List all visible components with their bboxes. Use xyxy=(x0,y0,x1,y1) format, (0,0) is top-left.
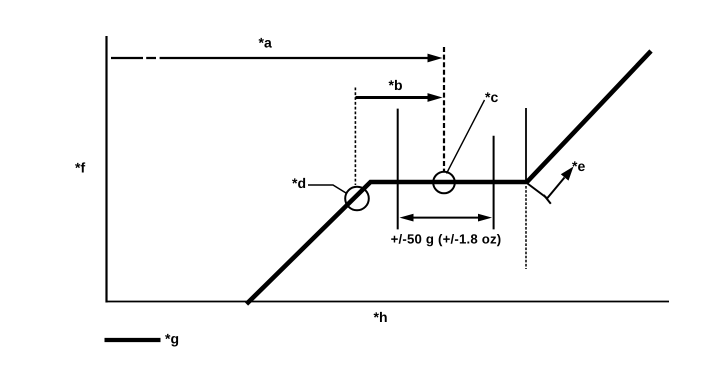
svg-text:+/-50 g (+/-1.8 oz): +/-50 g (+/-1.8 oz) xyxy=(391,231,502,246)
svg-text:*c: *c xyxy=(485,89,498,105)
svg-text:*b: *b xyxy=(389,77,403,93)
svg-text:*g: *g xyxy=(165,331,179,347)
svg-text:*e: *e xyxy=(572,158,585,174)
svg-text:*d: *d xyxy=(292,175,306,191)
svg-text:*h: *h xyxy=(374,309,388,325)
svg-text:*f: *f xyxy=(75,160,85,176)
svg-text:*a: *a xyxy=(259,35,272,51)
